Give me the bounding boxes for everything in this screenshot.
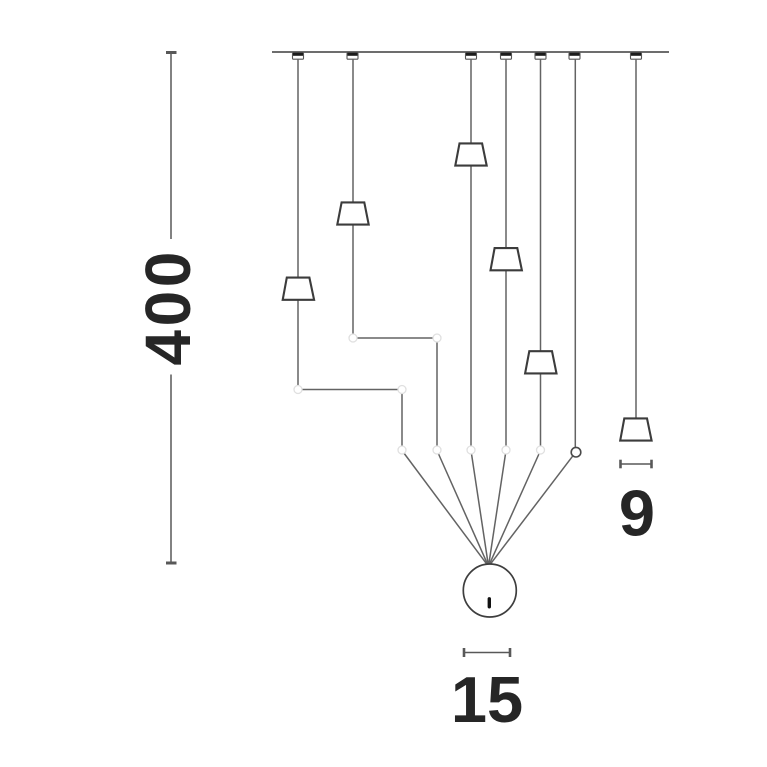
junction node wire2 fan	[433, 446, 441, 454]
svg-text:400: 400	[132, 248, 204, 366]
canopy connector 3	[466, 53, 477, 59]
canopy connector 7	[631, 53, 642, 59]
junction node wire1 at bend	[294, 386, 302, 394]
wire 1 upper	[297, 59, 299, 277]
wire 3 diagonal to sphere	[471, 451, 488, 566]
wire 3 below shade	[470, 166, 472, 450]
wire 5 diagonal to sphere	[489, 451, 541, 566]
wire 4 upper	[505, 59, 507, 248]
wire 1 vertical drop	[401, 390, 403, 451]
wire 6 straight drop	[574, 59, 576, 447]
dimension line 15 (bottom)	[464, 648, 510, 657]
sphere socket mark	[488, 599, 491, 607]
ceiling line	[272, 51, 669, 53]
lampshade 3	[455, 143, 486, 165]
wire 2 upper	[352, 59, 354, 202]
canopy connector 2	[347, 53, 358, 59]
wire 7 upper	[635, 59, 637, 418]
canopy connector 6	[569, 53, 580, 59]
wire 2 vertical drop	[436, 338, 438, 450]
wire 3 upper	[470, 59, 472, 143]
wire 6 diagonal to sphere	[489, 456, 572, 565]
junction node wire3 fan	[467, 446, 475, 454]
lampshade 4	[491, 248, 522, 270]
lampshade 1	[283, 278, 314, 300]
open ring connector wire6	[571, 447, 581, 457]
wire 5 upper	[540, 59, 542, 351]
wire 5 below shade	[540, 374, 542, 450]
canopy connector 5	[535, 53, 546, 59]
junction node wire2 corner	[433, 334, 441, 342]
wire 1 diagonal to sphere	[402, 451, 488, 566]
wire 2 diagonal to sphere	[437, 451, 488, 566]
wire 1 below shade	[297, 300, 299, 389]
wire 1 horizontal step	[298, 389, 402, 391]
wire 4 below shade	[505, 271, 507, 451]
junction node wire4 fan	[502, 446, 510, 454]
wire 2 below shade	[352, 225, 354, 338]
junction node wire1 fan	[398, 446, 406, 454]
lampshade 6	[620, 418, 651, 440]
junction node wire1 corner	[398, 386, 406, 394]
svg-text:15: 15	[451, 663, 523, 736]
wire 2 horizontal step	[353, 337, 437, 339]
svg-text:9: 9	[619, 477, 655, 550]
dimension line 400 (left vertical)	[166, 53, 177, 564]
junction node wire5 fan	[537, 446, 545, 454]
junction node wire2 at bend	[349, 334, 357, 342]
canopy connector 1	[293, 53, 304, 59]
dimension line 9 (right)	[621, 460, 652, 469]
lampshade 5	[525, 351, 556, 373]
lampshade 2	[337, 202, 368, 224]
canopy connector 4	[501, 53, 512, 59]
wire 4 diagonal to sphere	[489, 451, 506, 566]
glass sphere	[463, 564, 516, 617]
